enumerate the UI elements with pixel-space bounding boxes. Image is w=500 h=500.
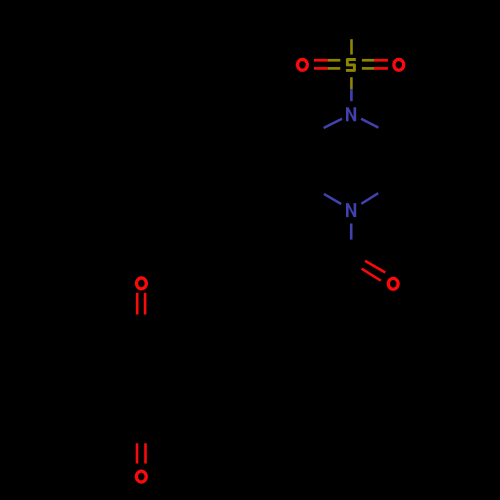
bond S=O left, line 2 olive half — [328, 67, 341, 70]
bond S-N1, blue half — [350, 89, 353, 101]
atom S (sulfonyl) — [346, 59, 356, 70]
bond S=O left, line 1 red half — [314, 59, 328, 62]
atom N1 (piperazine top) — [346, 107, 356, 121]
bond S=O right, line 1 red half — [374, 59, 388, 62]
bond S=O left, line 2 red half — [314, 67, 328, 70]
bond N1-C2, blue half — [361, 119, 378, 128]
bond S=O right, line 2 red half — [374, 67, 388, 70]
bond N1-C6, blue half — [324, 119, 342, 128]
bond C=O quinone top, line 1 red half — [136, 293, 139, 315]
bond C3-N4, blue half — [361, 193, 378, 204]
atom N4 (piperazine bottom) — [346, 203, 356, 217]
atom O (sulfonyl right) — [394, 59, 404, 70]
bond C=O quinone bottom, line 1 red half — [136, 443, 139, 463]
bond C=O quinone top, line 2 red half — [144, 293, 147, 315]
bond C5-N4, blue half — [324, 194, 341, 204]
bond N4-C(=O), blue half — [350, 224, 353, 240]
atom O (sulfonyl left) — [298, 59, 308, 70]
atom O (quinone top) — [137, 278, 147, 289]
atom O (quinone bottom) — [136, 471, 146, 482]
atom O (amide carbonyl) — [388, 278, 398, 289]
bond S=O right, line 2 olive half — [362, 67, 374, 70]
bond C=O quinone bottom, line 2 red half — [144, 443, 147, 463]
bond S=O left, line 1 olive half — [328, 59, 341, 62]
bond C=O amide, line 2 red half — [362, 269, 381, 281]
bond S-N1, olive half — [350, 77, 353, 89]
bond S=O right, line 1 olive half — [362, 59, 374, 62]
bond C=O amide, line 1 red half — [365, 261, 385, 273]
wire: bond CH3-S (S half, olive) — [350, 39, 353, 54]
